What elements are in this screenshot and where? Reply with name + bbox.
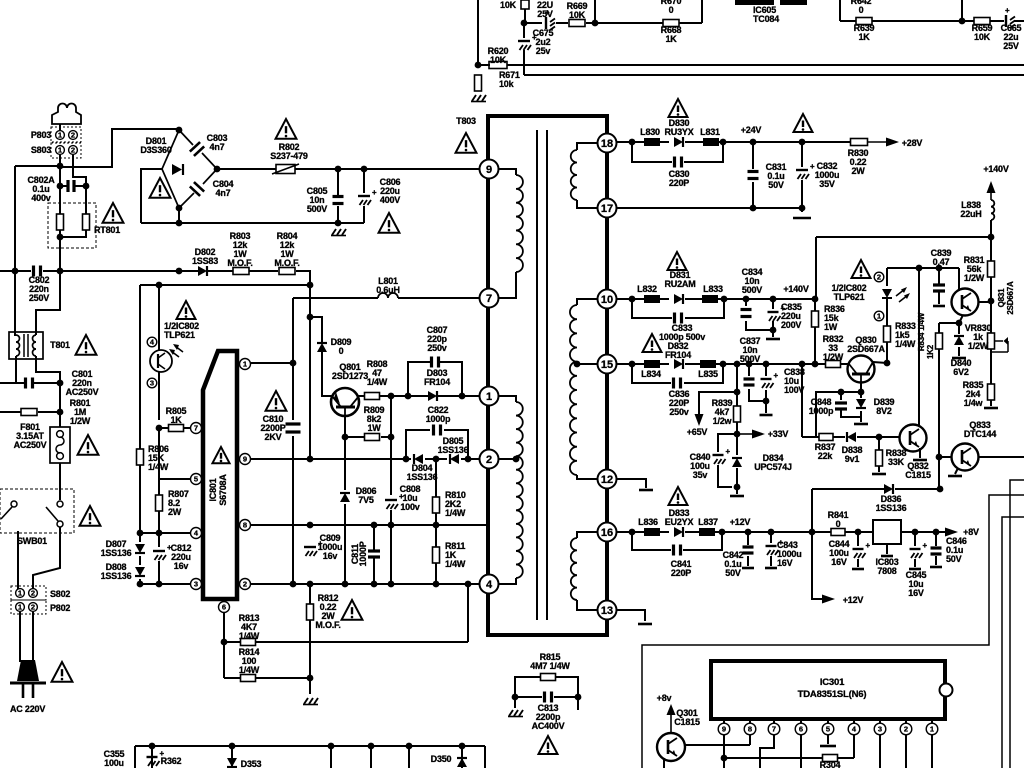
wire C844 bottom (857, 559, 859, 567)
IC605 body fragment (735, 0, 807, 5)
resistor RT801 left element (57, 214, 64, 230)
svg-text:P802: P802 (50, 603, 70, 613)
wire Q801 emitter (344, 415, 346, 437)
wire C848 bottom (841, 410, 861, 417)
junction D350 stem (459, 743, 466, 750)
junction R811 y525 (433, 522, 440, 529)
junction R836 tap (812, 296, 819, 303)
wire D836 row (812, 488, 884, 490)
ground below R671 (471, 95, 486, 102)
svg-text:1K: 1K (170, 415, 182, 425)
label D801 D3S360 (140, 136, 172, 155)
wire C840 branch (718, 434, 737, 452)
capacitor C806 220u 400V (358, 188, 377, 205)
wire Q301 emitter (663, 758, 665, 768)
svg-text:4: 4 (486, 579, 493, 591)
wire D807 column (139, 533, 141, 542)
wire IC301 pin 1 stem (931, 719, 933, 723)
svg-text:+140V: +140V (783, 284, 808, 294)
junction bridge top (176, 127, 183, 134)
wire L832-D831 (660, 298, 669, 300)
wire P802-2 to plug (32, 612, 34, 662)
inductor L801 0.6uH (378, 293, 398, 298)
label D830 RU3YX (664, 118, 693, 137)
junction R814 node (307, 675, 314, 682)
sheet link line B (1010, 480, 1024, 768)
wire Q832 collector (918, 268, 920, 425)
wire R801 row b (38, 411, 60, 413)
transistor Q832 C1815 (900, 425, 927, 452)
warning triangle above IC802 right (852, 260, 871, 278)
svg-text:9: 9 (243, 455, 247, 464)
svg-text:R304: R304 (820, 760, 841, 768)
wire R807 col b (158, 511, 160, 532)
wire R814 row (224, 677, 240, 679)
svg-text:RT801: RT801 (94, 225, 120, 235)
svg-text:S6708A: S6708A (218, 474, 228, 506)
svg-text:1/2w: 1/2w (713, 416, 733, 426)
wire secondary 18 top (577, 143, 607, 150)
wire top rail (525, 22, 542, 24)
wire D808 bottom (139, 579, 141, 584)
wire bridge bottom to rail (178, 208, 180, 223)
zener D838 9v1 (847, 432, 856, 442)
junction snubber bridge (176, 220, 183, 227)
wire C667 riser (524, 9, 526, 23)
wire bottom rail right end (484, 746, 486, 768)
capacitor C813 2200p AC400V (545, 692, 552, 703)
optocoupler 1/2IC802 LED (882, 287, 910, 302)
wire R815 loop b (555, 677, 578, 697)
junction C806 tap (361, 166, 368, 173)
junction C830 right (720, 139, 727, 146)
connector S803 dashed box (51, 143, 81, 158)
junction x310 y525 (307, 522, 314, 529)
warning triangle near SW801 (80, 506, 101, 526)
svg-text:+: + (1005, 6, 1010, 15)
label Q301 C1815 (674, 708, 700, 727)
wire L831 to +24 node (719, 141, 851, 143)
wire pin9 row c (461, 458, 479, 460)
svg-text:8: 8 (243, 521, 247, 530)
secondary winding 16-13 (571, 538, 577, 600)
connector P802 dashed box (11, 600, 46, 614)
ground at node 13 (638, 623, 652, 626)
capacitor C665 22u 25V (1005, 6, 1015, 28)
svg-text:+28V: +28V (902, 138, 923, 148)
junction primary tap 2 (513, 456, 520, 463)
ground below C846 (930, 566, 942, 569)
svg-text:+33V: +33V (768, 429, 789, 439)
junction C830 left (629, 139, 636, 146)
junction D836 right (937, 486, 944, 493)
junction C841 left (629, 529, 636, 536)
svg-text:C1815: C1815 (905, 470, 931, 480)
wire R831 col b (990, 277, 992, 301)
wire R837 riser (816, 392, 841, 437)
svg-text:17: 17 (601, 203, 613, 215)
svg-text:25v: 25v (536, 46, 551, 56)
wire IC301 pin 3 stem (879, 719, 881, 723)
pin 2 of IC802 right (874, 272, 884, 282)
wire R835 bottom (990, 400, 992, 406)
pin 5 of IC801 (191, 474, 202, 485)
label R832 33 1/2W (823, 334, 844, 362)
wire pin1 down (931, 735, 933, 768)
svg-text:220P: 220P (671, 568, 691, 578)
label R835 2k4 1/4w (963, 380, 984, 408)
junction x310 y584 (307, 581, 314, 588)
warning triangle near F801 (78, 435, 99, 455)
pin 7 of IC301 (768, 723, 780, 735)
label D840 6V2 (951, 358, 972, 377)
label C813 2200p AC400V (532, 703, 565, 731)
svg-text:250v: 250v (669, 407, 688, 417)
label D807 1SS136 (101, 539, 132, 558)
label C808 10u 100v (400, 484, 421, 512)
junction Q833 base tap (936, 454, 943, 461)
svg-text:13: 13 (601, 605, 613, 617)
capacitor C830 220P (675, 157, 682, 168)
node 4 (480, 575, 499, 594)
resistor R304 (823, 755, 838, 762)
svg-text:3: 3 (194, 580, 198, 589)
wire pin1 link (251, 362, 293, 364)
wire x391 lower (390, 510, 392, 584)
wire S803-1 down (59, 155, 61, 166)
svg-text:SWB01: SWB01 (17, 536, 47, 546)
ground at node 12 (639, 489, 653, 492)
wire L835 to base rail (716, 363, 826, 365)
svg-text:TDA8351SL(N6): TDA8351SL(N6) (798, 689, 867, 700)
wire Q831 base riser (958, 268, 960, 291)
junction C835 tap (770, 296, 777, 303)
wire left edge stub (15, 165, 60, 167)
wire L834-D832 (660, 363, 669, 365)
svg-text:0: 0 (836, 519, 841, 529)
junction C831 bottom (750, 205, 757, 212)
junction opto tap (156, 282, 163, 289)
svg-text:1: 1 (18, 589, 22, 598)
wire D803 to node1 (438, 395, 479, 397)
pin 4 of IC301 (848, 723, 860, 735)
label VR830 1k 1/2W (965, 323, 992, 351)
resistor R839 4k7 1/2w (734, 406, 741, 422)
svg-text:1000P: 1000P (358, 541, 368, 566)
svg-text:8: 8 (748, 725, 752, 734)
wire D806 column b (344, 504, 346, 584)
svg-text:D3S360: D3S360 (140, 145, 172, 155)
wire D802 rail (208, 270, 233, 272)
label R838 33K (886, 448, 907, 467)
wire IC301 pin 9 stem (723, 719, 725, 723)
resistor R808 47 (365, 393, 380, 400)
svg-text:10K: 10K (490, 55, 507, 65)
wire top rail b (556, 22, 568, 24)
svg-text:+: + (923, 541, 928, 550)
IC IC301 TDA8351SL chip (711, 661, 953, 719)
resistor R803 (233, 268, 249, 275)
node 17 (598, 199, 617, 218)
junction C808 y525 (388, 522, 395, 529)
connector pin P802-2 (29, 603, 38, 612)
label P802 (50, 603, 70, 613)
junction C834 tap (743, 296, 750, 303)
svg-text:AC250V: AC250V (66, 387, 99, 397)
label L832 (637, 284, 657, 294)
wire C835 col b (772, 321, 774, 337)
wire node18 rail (617, 141, 645, 143)
label C802 220n 250V (29, 275, 50, 303)
ground below C832 (793, 217, 811, 220)
diode D807 1SS136 (135, 544, 145, 553)
pin 2 of IC301 (900, 723, 912, 735)
resistor RT801 right element (83, 214, 90, 230)
wire opto collector (158, 285, 160, 350)
junction C802A left (57, 183, 64, 190)
wire L833 to +140 node (718, 298, 815, 300)
wire C835 column (772, 299, 774, 309)
transistor Q301 C1815 (657, 733, 685, 761)
resistor R834 1K2 (936, 333, 943, 349)
warning triangle below T803 (456, 133, 477, 153)
node 10 (598, 290, 617, 309)
wire C846 col b (935, 556, 937, 565)
label C841 220P (671, 559, 692, 578)
junction C837-C838 (763, 398, 770, 405)
inductor L832 (644, 295, 660, 303)
connector pin S803-1 (56, 146, 65, 155)
wire pin9 row (250, 458, 411, 460)
label R669 10K (567, 1, 588, 20)
junction bridge bottom (176, 205, 183, 212)
wire D802 rail b (249, 270, 278, 272)
label R814 100 1/4W (239, 647, 260, 675)
warning triangle near +24V (794, 114, 813, 132)
label IC605 TC084 (753, 5, 779, 24)
wire feedback riser (811, 489, 813, 531)
optocoupler 1/2IC802 TLP621 phototransistor (150, 344, 183, 372)
svg-text:L837: L837 (698, 517, 718, 527)
warning triangle above IC802 (177, 301, 196, 319)
wire D840 column (958, 323, 960, 334)
junction x293 y584 (290, 581, 297, 588)
label 22U 25V (537, 0, 553, 19)
svg-text:2: 2 (243, 580, 247, 589)
svg-text:0: 0 (339, 346, 344, 356)
wire R642 down (839, 0, 841, 21)
ground below R835 (984, 407, 998, 410)
ground below R838 (872, 473, 886, 476)
wire R833 to Q830 collector (886, 342, 888, 363)
label R803 12k 1W M.O.F. (227, 231, 252, 268)
junction +24V node (750, 139, 757, 146)
label S803 (31, 145, 51, 155)
label L834 (641, 369, 661, 379)
svg-text:22uH: 22uH (960, 209, 981, 219)
label C838 10u 100V (784, 367, 805, 395)
label R810 2K2 1/4W (445, 490, 466, 518)
svg-text:1/4W: 1/4W (445, 508, 466, 518)
connector pin P803-2 (69, 131, 78, 140)
warning triangle above D833 (669, 487, 688, 505)
svg-text:1SS136: 1SS136 (101, 548, 132, 558)
secondary winding 18-17 (571, 150, 577, 200)
resistor R815 4M7 (541, 674, 556, 681)
label R805 1K (166, 406, 187, 425)
wire R659 to C665 (990, 20, 1004, 22)
ground below D839 (854, 423, 868, 426)
regulator IC803 7808 (873, 520, 901, 544)
junction +65V tap (734, 389, 741, 396)
capacitor C809 1000u 16v (304, 539, 323, 556)
label R813 4K7 1/4W (239, 613, 260, 641)
wire R813 riser (467, 584, 469, 642)
wire D809 branch (310, 317, 322, 342)
svg-text:1W: 1W (367, 423, 381, 433)
svg-text:500V: 500V (742, 285, 762, 295)
junction C801 node (57, 380, 64, 387)
wire C845 bottom (914, 559, 916, 567)
wire IC301 pin 2 stem (905, 719, 907, 723)
wire C842 col b (747, 556, 749, 566)
wire R836 column (814, 299, 816, 311)
capacitor C833 1000p 500v (675, 313, 682, 324)
wire node16 rail (617, 531, 645, 533)
wire T801 right bottom (36, 356, 60, 383)
label D350 (431, 754, 452, 764)
junction C822 left (403, 456, 410, 463)
svg-text:+24V: +24V (741, 125, 762, 135)
junction C836 left (629, 361, 636, 368)
label Q832 C1815 (905, 461, 931, 480)
label C803 4n7 (207, 133, 228, 152)
wire C831 column (752, 142, 754, 169)
svg-text:400V: 400V (380, 195, 400, 205)
wire R814 column (223, 642, 225, 678)
svg-text:4M7 1/4W: 4M7 1/4W (530, 661, 570, 671)
wire left vertical (14, 166, 16, 271)
svg-text:2: 2 (71, 131, 75, 140)
resistor R835 2k4 1/4w (988, 384, 995, 400)
label C675 2u2 25v (533, 28, 554, 56)
wire D836 right (895, 488, 940, 490)
svg-text:AC250V: AC250V (14, 440, 47, 450)
svg-text:S802: S802 (50, 589, 70, 599)
junction R659 tap (959, 18, 966, 25)
capacitor C803 4n7 diagonal (190, 142, 204, 156)
zener D840 6V2 (954, 336, 964, 345)
svg-text:25V: 25V (537, 9, 553, 19)
label R802 S237-479 (270, 142, 308, 161)
svg-text:10: 10 (601, 294, 613, 306)
junction Q831 emitter node (956, 320, 963, 327)
junction C813 left (512, 694, 519, 701)
svg-text:500V: 500V (307, 204, 327, 214)
thermistor RT801 dashed box (48, 203, 96, 248)
svg-text:L832: L832 (637, 284, 657, 294)
wire VR830 to R835 (990, 349, 992, 385)
svg-text:4n7: 4n7 (210, 142, 225, 152)
wire L838 to rail (990, 220, 992, 237)
label R833 1k5 1/4W (895, 321, 916, 349)
junction base drive (307, 282, 314, 289)
wire node10 rail (617, 298, 645, 300)
wire R670 riser (594, 0, 596, 23)
svg-text:TLP621: TLP621 (164, 330, 195, 340)
ground below C843 (765, 567, 777, 570)
wire C811 column (373, 525, 375, 551)
svg-text:5: 5 (194, 475, 198, 484)
svg-text:L835: L835 (698, 369, 718, 379)
wire secondary tap 15 (577, 363, 607, 365)
svg-text:1000p: 1000p (809, 406, 834, 416)
junction C836 right (720, 361, 727, 368)
label R808 47 1/4W (367, 359, 388, 387)
wire pin9 row b (425, 458, 447, 460)
capacitor C812 220u 16v (153, 543, 172, 560)
capacitor C810 2200P 2KV (286, 424, 301, 432)
wire C812 col b (158, 561, 160, 584)
wire RT801 to C802 node (59, 237, 61, 271)
wire T801 left top (15, 271, 16, 335)
resistor remnant above R620 area (521, 0, 529, 9)
svg-text:+: + (866, 541, 871, 550)
wire riser above R659 (961, 0, 963, 21)
junction stem a (328, 743, 335, 750)
junction AC rail left (12, 268, 19, 275)
label IC301 (820, 677, 845, 688)
svg-text:35v: 35v (693, 470, 708, 480)
junction AC rail bridge (176, 268, 183, 275)
wire R839 col b (736, 422, 738, 455)
wire D809 to base (322, 352, 332, 396)
label L836 (638, 517, 658, 527)
svg-text:+8v: +8v (657, 693, 672, 703)
wire +12V branch (812, 532, 822, 599)
svg-text:2SD667A: 2SD667A (847, 344, 885, 354)
capacitor C837 10n 500V (744, 379, 755, 385)
svg-text:16V: 16V (831, 557, 847, 567)
svg-text:2: 2 (71, 146, 75, 155)
label D831 RU2AM (664, 270, 695, 289)
wire IC301 pin 6 stem (800, 719, 802, 723)
svg-text:400v: 400v (31, 193, 50, 203)
svg-text:7: 7 (486, 293, 492, 305)
svg-text:0: 0 (669, 5, 674, 15)
pin 6 of IC801 (219, 602, 230, 613)
wire D839 column (860, 392, 862, 398)
wire primary 7 bottom (489, 272, 516, 298)
label AC 220V (10, 704, 45, 714)
wire C833 loop (632, 299, 672, 318)
label L837 (698, 517, 718, 527)
wire x391 vertical (390, 396, 392, 495)
pin 2 of IC801 (240, 579, 251, 590)
svg-text:R362: R362 (161, 756, 182, 766)
svg-text:+65V: +65V (687, 427, 708, 437)
junction C848 top (838, 389, 845, 396)
junction Q830 emitter node (858, 389, 865, 396)
wire R806 column (139, 285, 141, 449)
svg-text:L830: L830 (640, 127, 660, 137)
junction C355 stem (149, 743, 156, 750)
junction C822 right (465, 456, 472, 463)
label C831 0.1u 50V (766, 162, 787, 190)
wire pin6 down (800, 735, 802, 768)
transformer T803 outline (488, 116, 607, 635)
wire R834 column (938, 323, 940, 334)
